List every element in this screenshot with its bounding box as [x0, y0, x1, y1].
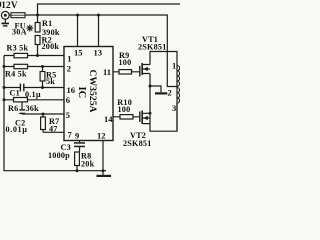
svg-text:R4 5k: R4 5k	[5, 70, 27, 79]
svg-text:0.1µ: 0.1µ	[25, 90, 41, 99]
svg-text:1: 1	[172, 61, 176, 71]
svg-text:C1: C1	[10, 89, 20, 98]
svg-text:CW3525A: CW3525A	[87, 70, 98, 113]
svg-text:12V: 12V	[1, 1, 18, 11]
svg-text:12: 12	[97, 130, 106, 140]
svg-text:47: 47	[49, 124, 58, 133]
svg-text:R1: R1	[42, 19, 52, 28]
svg-text:16: 16	[67, 85, 76, 95]
svg-text:1: 1	[67, 54, 71, 64]
svg-text:1000p: 1000p	[48, 151, 70, 160]
svg-text:6: 6	[66, 95, 70, 105]
svg-text:2SK851: 2SK851	[138, 42, 167, 51]
svg-text:5k: 5k	[46, 77, 55, 86]
svg-text:100: 100	[119, 58, 132, 67]
svg-text:2: 2	[168, 88, 172, 98]
svg-text:11: 11	[103, 67, 111, 77]
svg-text:36k: 36k	[26, 104, 40, 113]
svg-text:20k: 20k	[81, 160, 95, 169]
svg-text:30A: 30A	[12, 28, 27, 37]
svg-text:5: 5	[66, 110, 70, 120]
svg-text:3: 3	[172, 103, 176, 113]
svg-text:200k: 200k	[42, 42, 60, 51]
svg-text:2: 2	[67, 63, 71, 73]
svg-text:13: 13	[94, 48, 103, 58]
svg-text:R6: R6	[8, 104, 18, 113]
svg-text:9: 9	[75, 130, 79, 140]
svg-text:100: 100	[118, 105, 131, 114]
svg-text:2SK851: 2SK851	[123, 139, 152, 148]
svg-text:0.01µ: 0.01µ	[6, 125, 28, 134]
svg-text:IC: IC	[76, 87, 87, 99]
svg-text:R3 5k: R3 5k	[7, 43, 29, 52]
svg-text:14: 14	[104, 114, 113, 124]
svg-text:15: 15	[74, 48, 83, 58]
